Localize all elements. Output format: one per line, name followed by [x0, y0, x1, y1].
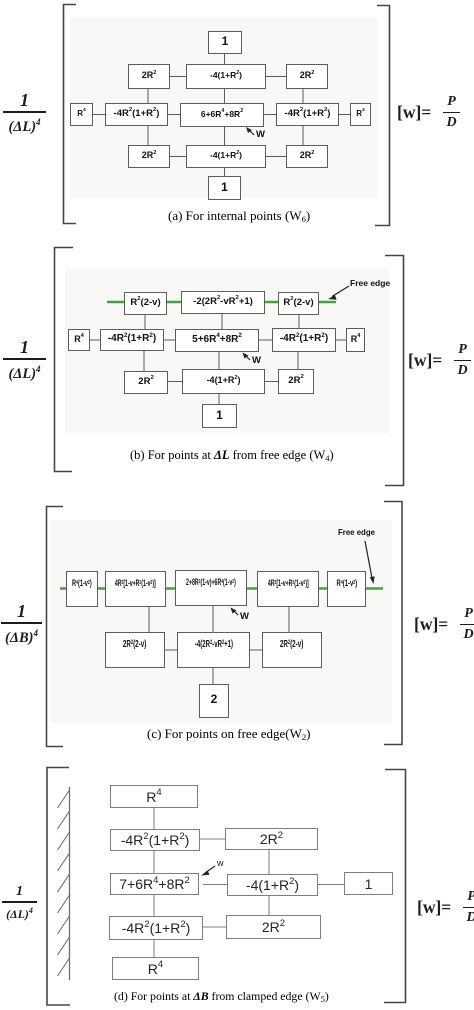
box b 2R2 row3 right [278, 369, 314, 394]
arrow W panel b [245, 355, 250, 360]
label Free edge panel b [350, 278, 390, 288]
arrow W panel c [233, 610, 238, 615]
wire a: middle box to row4 center [224, 127, 226, 145]
wire b: top row to row2 verticals [144, 315, 146, 329]
label W panel a [256, 129, 265, 140]
box a -4(1+R2) row4 [186, 145, 266, 168]
box a 6+6R4+8R2 center [180, 103, 264, 127]
box c R4(1-v2) top 1 [66, 571, 98, 607]
box a R4 row3 left [70, 103, 93, 126]
box a -4R2(1+R2) row3 right [276, 103, 339, 126]
wire c: row2 to box 2 [212, 668, 214, 684]
right bracket panel c [384, 502, 402, 745]
box c 2+8R2(1-v)+6R4(1-v2) top center [175, 570, 247, 606]
panel c background [50, 520, 392, 723]
wire a: row4 center to bottom 1 [224, 168, 226, 176]
box b 2R2 row3 left [124, 371, 168, 394]
wire a: row2 center to middle box [224, 89, 226, 103]
box d 2R2 row2 [225, 828, 318, 850]
wire d: horizontals [200, 838, 225, 840]
box d -4(1+R2) center right [227, 874, 318, 896]
equation d [417, 890, 474, 925]
box a -4(1+R2) row2 [186, 64, 266, 89]
box a 2R2 row2 right [286, 64, 328, 89]
label Free edge panel c [338, 527, 375, 537]
box b -2(2R2-vR2+1) top center [181, 291, 265, 314]
label w panel d [217, 858, 224, 868]
box a R4 row3 right [350, 103, 371, 126]
wire a: top 1 to -4(1+R2) [224, 54, 226, 64]
box d 7+6R4+8R2 center [110, 873, 199, 895]
box b 1 bottom [202, 404, 237, 428]
wire a: right col row2-row3 [302, 89, 304, 103]
free edge green line panel c [60, 587, 383, 590]
label W panel c [240, 611, 249, 622]
clamped edge line panel d [69, 787, 71, 980]
equation b [408, 343, 471, 378]
left bracket panel a [64, 5, 77, 224]
wire a: right col row3-row4 [302, 126, 304, 145]
equation c [414, 607, 474, 642]
wire a: row4 horizontals [170, 156, 186, 158]
free edge green line panel b [107, 301, 336, 304]
wire b: row2 to row3 verticals [143, 351, 145, 371]
wire b: row3 to bottom 1 [218, 394, 220, 404]
caption d [114, 989, 329, 1004]
box b -4(1+R2) row3 [182, 369, 265, 394]
left bracket panel b [55, 248, 74, 472]
right bracket panel d [384, 770, 406, 1003]
right bracket panel a [375, 6, 390, 226]
box a 2R2 row4 right [286, 145, 328, 168]
box d -4R2(1+R2) row2 [110, 829, 200, 851]
wire b: row2 horizontals [90, 339, 100, 341]
wire b: row3 horizontals [168, 381, 182, 383]
box b R4 row2 left [68, 329, 90, 351]
wire a: row3 horizontals [93, 114, 105, 116]
caption c [147, 726, 310, 742]
box d 1 right [344, 872, 393, 895]
box a 1 top [208, 31, 242, 54]
right bracket panel b [385, 256, 404, 486]
wire a: left col row3-row4 [147, 126, 149, 145]
caption a [168, 208, 310, 224]
box b R4 row2 right [346, 328, 365, 352]
box b R2(2-v) top right [278, 292, 319, 315]
wire a: row2 horizontals [170, 76, 186, 78]
arrow W panel a [248, 129, 254, 135]
box b R2(2-v) top left [124, 292, 167, 315]
wire d: col1 verticals [153, 808, 155, 829]
box c -4(2R2-vR2+1) row2 center [177, 632, 250, 668]
box a 2R2 row2 left [128, 64, 170, 89]
panel b background [65, 268, 390, 433]
box c 2 bottom [199, 684, 229, 718]
box d R4 top [110, 785, 198, 808]
fraction 1/(dL)^4 panel a [3, 91, 46, 135]
box c 4R2[1-v+R2(1-v2)] top 2 [105, 571, 166, 607]
left bracket panel d [47, 768, 70, 1006]
label W panel b [252, 355, 261, 366]
box c 4R2[1-v+R2(1-v2)] top 4 [257, 571, 319, 607]
wire c: row2 horizontals [165, 649, 177, 651]
clamped edge hatching [58, 790, 70, 976]
free edge arrow panel c [365, 541, 372, 578]
caption b [130, 448, 334, 463]
equation a [397, 95, 460, 130]
box a -4R2(1+R2) row3 left [105, 103, 168, 126]
box b -4R2(1+R2) row2 right [272, 328, 336, 352]
box d -4R2(1+R2) row4 [109, 916, 203, 940]
box c R4(1-v2) top 5 [327, 571, 366, 607]
box a 1 bottom [208, 176, 241, 200]
box b -4R2(1+R2) row2 left [100, 329, 164, 351]
wire c: top row to row2 verticals [148, 607, 150, 632]
box a 2R2 row4 left [128, 145, 170, 168]
box d 2R2 row4 [226, 915, 321, 939]
wire d: col2 verticals [268, 850, 270, 874]
box d R4 bottom [112, 957, 199, 980]
arrow w panel d [205, 866, 215, 873]
fraction 1/(dL)^4 panel b [3, 338, 46, 382]
wire a: left col row2-row3 [147, 89, 149, 103]
left bracket panel c [47, 507, 64, 747]
fraction 1/(dL)^4 panel d [2, 884, 37, 921]
free edge arrow panel b [332, 286, 349, 297]
box b 5+6R4+8R2 center [175, 329, 259, 352]
fraction 1/(dB)^4 panel c [1, 602, 42, 646]
box c 2R2(2-v) row2 right [262, 632, 322, 668]
box c 2R2(2-v) row2 left [105, 632, 165, 668]
panel a background [70, 17, 378, 198]
